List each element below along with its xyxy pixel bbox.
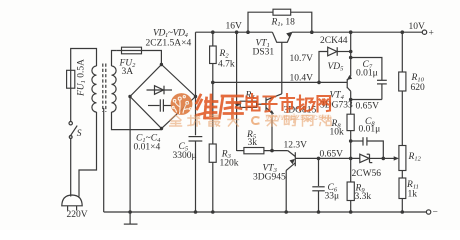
node bridge top	[160, 63, 163, 66]
wire node 10.4V horizontal	[213, 81, 347, 83]
resistor R10	[399, 72, 406, 146]
wire primary bottom to plug	[79, 112, 97, 197]
大	[228, 115, 239, 126]
svg-text:FU1 0.5A: FU1 0.5A	[77, 59, 88, 97]
zener diode 2CW56	[360, 154, 384, 162]
wire secondary bottom to bridge bottom corner	[112, 112, 162, 130]
wire bridge plus riser to top rail	[195, 32, 197, 96]
node rail R11	[401, 210, 405, 214]
node R4 left	[235, 102, 239, 106]
transformer secondary winding	[112, 66, 117, 112]
svg-text:0.01μ: 0.01μ	[359, 125, 381, 135]
wire bridge minus down to bottom rail	[129, 97, 131, 213]
svg-text:12.3V: 12.3V	[284, 141, 308, 151]
transformer T primary winding	[92, 66, 97, 112]
购	[285, 116, 296, 126]
top rail output terminal	[422, 29, 434, 39]
node rail ground	[128, 210, 132, 214]
transistor VT1 DS31	[272, 32, 291, 42]
wire rail down VD5 node	[350, 32, 352, 76]
svg-text:120k: 120k	[220, 159, 239, 169]
capacitor C6 33u	[312, 158, 324, 212]
wire rail to R4 R5 branch	[236, 32, 238, 151]
transformer core	[103, 64, 106, 113]
diode VD5	[328, 47, 351, 56]
svg-text:33μ: 33μ	[325, 192, 340, 202]
wire fuse FU2 to bridge top	[142, 51, 161, 65]
watermark text weiku	[197, 95, 243, 118]
最	[209, 115, 220, 126]
resistor R3	[209, 144, 216, 212]
bridge rectifier VD1-VD4 diamond	[130, 65, 196, 129]
svg-text:3DG945: 3DG945	[253, 173, 286, 183]
resistor R11	[399, 178, 406, 212]
svg-text:10.4V: 10.4V	[290, 74, 314, 84]
node VT3 base C6	[317, 157, 321, 161]
维	[197, 95, 218, 118]
svg-text:10k: 10k	[330, 128, 345, 138]
wire secondary top to fuse FU2	[112, 51, 117, 67]
全	[170, 115, 182, 126]
wire VT3 emitter to bottom rail	[285, 170, 287, 212]
C	[252, 117, 259, 124]
svg-text:DS31: DS31	[253, 48, 275, 58]
node bridge left	[128, 95, 131, 98]
svg-text:0.01μ: 0.01μ	[356, 69, 378, 79]
网	[303, 116, 313, 127]
网	[318, 96, 331, 112]
svg-text:220V: 220V	[67, 210, 88, 220]
wire VT1 base down to VT2 collector	[281, 42, 283, 94]
svg-text:R1, 18: R1, 18	[271, 18, 296, 29]
svg-text:0.65V: 0.65V	[356, 102, 380, 112]
plug 220V	[62, 195, 82, 211]
svg-text:10V: 10V	[409, 22, 426, 32]
node bridge bottom	[160, 127, 163, 130]
wire zener node down to R9	[350, 158, 352, 182]
node R1 right	[310, 30, 314, 34]
市	[281, 94, 295, 112]
场	[298, 96, 315, 112]
fuse FU2	[116, 47, 142, 54]
wire rail down to R10	[401, 32, 403, 72]
svg-text:+: +	[429, 29, 434, 39]
svg-text:16V: 16V	[226, 22, 243, 32]
potentiometer R12	[383, 146, 406, 179]
电	[247, 94, 260, 111]
diode symbol inside bridge	[147, 86, 173, 95]
node 0.65V	[349, 98, 353, 102]
svg-text:620: 620	[411, 83, 426, 93]
capacitor C5 3300u	[189, 97, 203, 213]
wire VT3 base reference line	[295, 157, 360, 159]
watermark text dianzi shichang wang	[247, 94, 331, 112]
node rail R9	[349, 210, 353, 214]
svg-text:2CW56: 2CW56	[352, 169, 382, 179]
svg-text:0.01×4: 0.01×4	[134, 143, 161, 153]
node rail VT4	[349, 30, 353, 34]
ground	[124, 212, 138, 224]
子	[263, 97, 277, 112]
node R1 left	[246, 30, 250, 34]
wire switch to fuse FU1	[70, 88, 72, 121]
wire transformer shield to ground rail	[103, 108, 105, 212]
top rail right section	[292, 31, 423, 33]
node R2 bottom	[211, 81, 215, 85]
wire VT2 emitter down to node	[271, 113, 273, 151]
transistor VT3 3DG945	[286, 151, 295, 171]
node bridge right	[194, 95, 197, 98]
svg-text:10.7V: 10.7V	[290, 54, 314, 64]
node rail C5	[194, 210, 198, 214]
svg-text:0.65V: 0.65V	[320, 150, 344, 160]
库	[220, 96, 243, 118]
wire plug-left to switch	[70, 139, 72, 197]
transistor VT2 3DG815	[266, 94, 282, 114]
svg-text:VD1~VD4: VD1~VD4	[153, 29, 189, 40]
capacitor C8	[351, 137, 384, 158]
node rail R2	[211, 30, 215, 34]
watermark slogan	[170, 115, 331, 126]
svg-text:4.7k: 4.7k	[218, 60, 235, 70]
站	[320, 115, 331, 125]
node rail R10	[401, 30, 405, 34]
采	[266, 116, 278, 127]
resistor R9	[347, 182, 354, 212]
resistor R1	[248, 9, 312, 32]
capacitor C7	[351, 58, 387, 100]
node C8 left	[349, 139, 353, 143]
node C7 top	[349, 56, 353, 60]
node VT2e R5 VT3c	[270, 149, 274, 153]
resistor R2	[210, 32, 217, 82]
resistor R5	[237, 148, 288, 154]
wire R2 to R3	[212, 82, 214, 144]
node rail C6	[317, 210, 321, 214]
switch S	[69, 122, 77, 139]
wire VT4 emitter down	[350, 91, 352, 114]
svg-text:2CZ1.5A×4: 2CZ1.5A×4	[146, 39, 192, 49]
svg-text:3.3k: 3.3k	[355, 192, 372, 202]
capacitor symbol inside bridge (C1-C4)	[148, 99, 173, 111]
svg-text:2CK44: 2CK44	[320, 36, 348, 46]
svg-text:3A: 3A	[122, 67, 134, 77]
svg-text:1k: 1k	[408, 190, 418, 200]
watermark logo	[171, 93, 193, 115]
svg-text:3300μ: 3300μ	[173, 151, 197, 161]
wire fuse to transformer primary top	[71, 49, 97, 71]
svg-text:−: −	[433, 208, 438, 218]
node VD5 cathode	[349, 50, 353, 54]
node rail R4	[235, 30, 239, 34]
bottom rail	[104, 211, 427, 213]
bottom rail output terminal	[426, 208, 437, 218]
wire 0.65V horizontal	[351, 99, 382, 101]
node zener cathode C8	[382, 157, 386, 161]
node rail R3	[211, 210, 215, 214]
svg-text:3k: 3k	[248, 138, 258, 148]
svg-text:S: S	[77, 129, 82, 139]
diode VD5 2CK44 wire	[319, 52, 328, 83]
node zener R8	[349, 157, 353, 161]
球	[188, 115, 200, 126]
transistor VT4 3DG733	[347, 75, 352, 91]
node VD5 anode at 10.4V wire	[317, 81, 321, 85]
node rail VT3e	[284, 210, 288, 214]
resistor R4	[237, 101, 266, 107]
fuse FU1	[67, 70, 75, 88]
top rail left section	[196, 31, 273, 33]
resistor R8	[347, 114, 354, 158]
